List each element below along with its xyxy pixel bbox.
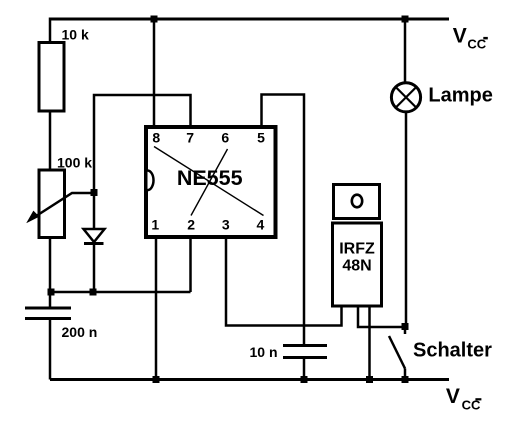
wire pin8 from top rail down to IC [153, 19, 156, 125]
wire capacitor 10n down to bottom rail [303, 358, 306, 380]
wire pin3 output down and right to MOSFET gate [226, 239, 342, 326]
wire pin1 down to bottom rail [155, 239, 158, 380]
wire bottom rail Vcc- [50, 378, 449, 381]
svg-text:100 k: 100 k [57, 155, 92, 171]
node B cap 200n junction [48, 289, 55, 296]
node A wiper / pin7 / diode junction [91, 189, 98, 196]
potentiometer wiper arrow [28, 193, 95, 222]
lamp symbol [391, 83, 420, 112]
svg-text:4: 4 [257, 217, 265, 233]
diode D1 [84, 229, 105, 244]
transistor Q1 mounting tab box [334, 185, 380, 219]
node E pin1 ground junction [153, 376, 160, 383]
potentiometer 100k body [39, 170, 65, 238]
net label Vcc- bottom [446, 385, 482, 412]
svg-text:V: V [453, 25, 467, 48]
op-amp U1 NE555 body [146, 127, 276, 237]
svg-text:V: V [446, 385, 460, 408]
wire lamp branch from top rail down to lamp [404, 19, 407, 83]
wire lamp down to switch node [405, 112, 408, 327]
node H top rail lamp junction [402, 16, 409, 23]
wire pot bottom down to node B [49, 238, 52, 293]
IC notch semicircle [148, 171, 154, 191]
svg-text:48N: 48N [342, 258, 371, 275]
svg-text:NE555: NE555 [177, 166, 243, 190]
node F cap 10n ground junction [301, 376, 308, 383]
svg-text:8: 8 [152, 130, 160, 146]
svg-text:5: 5 [257, 130, 265, 146]
wire pin5 net: up, across, down to capacitor 10n [262, 95, 305, 346]
transistor Q1 IRFZ 48N body [333, 223, 382, 306]
svg-text:6: 6 [221, 130, 229, 146]
wire pin7 net: node A up, across, down to pin 7 [94, 95, 191, 193]
wire drain pin down and right to switch node [358, 305, 405, 327]
mounting hole O [352, 195, 362, 208]
node J switch bottom ground junction [402, 376, 409, 383]
wire diode cathode down to node C [93, 244, 96, 293]
svg-text:Lampe: Lampe [428, 84, 492, 106]
svg-text:10 n: 10 n [250, 344, 278, 360]
wire from top rail down to resistor 10k [49, 18, 52, 44]
node C diode cathode junction [90, 289, 97, 296]
wire node B down to capacitor 200n [49, 292, 52, 308]
svg-text:3: 3 [222, 217, 230, 233]
internal cross line pin6 to pin2 [191, 149, 228, 216]
wire horizontal threshold line y292 to pin2 [50, 291, 191, 294]
svg-text:2: 2 [187, 217, 195, 233]
node D top rail / pin8 junction [151, 16, 158, 23]
net label Vcc+ top [453, 25, 488, 52]
svg-text:200 n: 200 n [62, 324, 98, 340]
svg-text:1: 1 [151, 217, 159, 233]
wire node A down to diode anode [93, 193, 96, 230]
wire top rail Vcc+ [50, 18, 449, 21]
switch S1 [389, 327, 405, 380]
capacitor 200n [25, 308, 71, 319]
svg-text:Schalter: Schalter [413, 339, 492, 361]
wire pin2 down to threshold line [189, 239, 192, 292]
wire source pin down to bottom rail [368, 305, 371, 380]
capacitor 10n [283, 346, 327, 358]
svg-text:IRFZ: IRFZ [339, 241, 375, 258]
internal cross line pin8 to pin4 [154, 147, 264, 216]
node I switch top junction [402, 323, 409, 330]
resistor 10k [39, 43, 64, 112]
wire capacitor 200n down to bottom rail [49, 319, 52, 380]
wire resistor 10k to potentiometer [49, 111, 52, 170]
svg-text:7: 7 [186, 130, 194, 146]
node G source ground junction [366, 376, 373, 383]
svg-text:10 k: 10 k [62, 27, 89, 43]
